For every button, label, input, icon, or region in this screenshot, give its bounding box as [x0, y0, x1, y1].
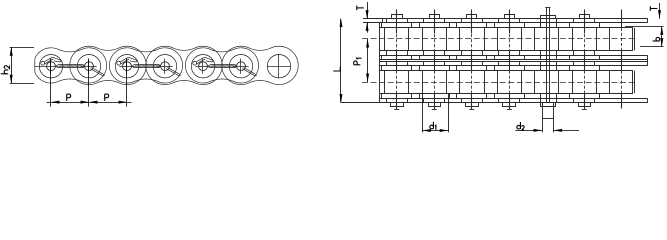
plan: plate end ticks at pin 2	[423, 19, 425, 23]
inner link plate rollers 3-4	[109, 48, 182, 83]
plan: connecting pin washers	[541, 16, 556, 19]
plan: band line 3 / b extension top	[380, 27, 634, 29]
plan: band line 5	[380, 55, 648, 57]
plan: pin 1 washers	[392, 15, 403, 19]
dimension b right	[625, 26, 664, 28]
pin centerlines	[50, 59, 52, 74]
plan: right end edges	[647, 19, 649, 23]
plan: rollers at pin 2	[422, 28, 424, 51]
spring clips (left pin of each inner link)	[41, 61, 45, 65]
plan: plate end ticks at pin 5	[540, 19, 542, 28]
plan: rollers at pin 4	[497, 28, 499, 51]
plan: outer plate top edge	[363, 18, 648, 20]
plan: strand 2 dashed centerline	[362, 82, 634, 84]
outer link plate rollers 4-5	[146, 46, 222, 84]
dimension T top right	[659, 3, 661, 19]
dimension d2	[515, 130, 542, 132]
plan: pin 6 washers	[580, 15, 590, 19]
plan: pin 4	[509, 10, 511, 34]
dimension T top left	[367, 2, 369, 19]
outer link plate rollers 6-7	[222, 46, 298, 84]
plan: rollers at pin 6	[572, 28, 574, 51]
dimension P (x2)	[50, 59, 52, 107]
plan: pin 7	[621, 10, 623, 28]
plan: band line 7	[380, 61, 648, 63]
plan: rollers at pin 5	[534, 28, 536, 51]
plan: roller bottom line strand 2	[380, 93, 634, 95]
plan: pin 5 (connecting pin)	[546, 8, 548, 103]
plan: strand 1 dashed centerline	[362, 38, 634, 40]
plan: band line 11	[380, 98, 648, 100]
plan: rollers at pin 3	[459, 28, 461, 51]
plan: pin 1	[396, 10, 398, 34]
dimension P1	[367, 39, 369, 82]
plan: rollers at pin 1	[384, 28, 386, 51]
outer link plate rollers 2-3	[70, 46, 146, 84]
plan: pin 6	[584, 10, 586, 34]
plan: left end edges	[379, 22, 381, 102]
plan: pin 3 washers	[467, 15, 477, 19]
plan: band line 6	[380, 59, 648, 61]
plan: plate end ticks at pin 4	[498, 19, 500, 23]
plan: plate end ticks at pin 1	[386, 19, 388, 23]
dimension d1	[422, 93, 424, 132]
plan: pin 3	[471, 10, 473, 34]
plan: band line 2	[363, 22, 648, 24]
plan: pin 4 washers	[505, 15, 515, 19]
cotter pins (right pin of each inner link)	[90, 69, 103, 76]
plan: plate end ticks at pin 3	[461, 19, 463, 23]
plan: roller top line strand 2	[380, 70, 634, 72]
plan: rollers at pin 7	[609, 28, 611, 51]
inner link plate rollers 5-6	[185, 48, 258, 83]
plan: pin 2	[434, 10, 436, 34]
pin circles	[47, 62, 56, 71]
plan: band line 8	[380, 65, 648, 67]
dimension L	[340, 19, 342, 103]
inner link plate rollers 1-2	[35, 48, 107, 83]
plan: outer plate bottom edge	[341, 102, 648, 104]
dimension h2	[10, 47, 34, 49]
plan: pin 2 washers	[430, 15, 440, 19]
plan: roller bottom line strand 1	[380, 50, 634, 52]
plan: plate end ticks at pin 6	[573, 19, 575, 23]
hatched pin bars	[58, 64, 83, 66]
rollers	[39, 54, 62, 77]
